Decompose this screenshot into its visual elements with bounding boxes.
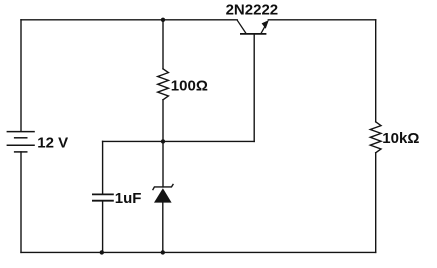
wire bottom ground rail bbox=[21, 251, 376, 253]
wire left rail lower (battery - to ground rail) bbox=[20, 152, 22, 253]
zener diode D1 bbox=[153, 184, 174, 203]
wire capacitor bottom lead bbox=[102, 201, 104, 253]
wire capacitor top lead bbox=[102, 141, 104, 193]
resistor R2 10kΩ bbox=[370, 122, 381, 153]
svg-text:10kΩ: 10kΩ bbox=[382, 130, 419, 147]
wire right rail upper (top to 10k) bbox=[375, 20, 377, 122]
capacitor C1 bbox=[92, 194, 114, 200]
wire zener bottom lead bbox=[162, 203, 164, 253]
wire top rail right segment (emitter to right rail) bbox=[268, 19, 375, 21]
wire right rail lower (10k to ground rail) bbox=[375, 153, 377, 253]
transistor Q1 2N2222 bbox=[237, 20, 269, 34]
wire base lead vertical bbox=[253, 34, 255, 141]
node junction ground rail / zener bbox=[161, 250, 165, 254]
wire 100Ω bottom lead bbox=[162, 100, 164, 142]
svg-text:12 V: 12 V bbox=[37, 134, 68, 151]
node junction mid wire / zener branch bbox=[161, 139, 165, 143]
resistor R1 100Ω bbox=[158, 69, 169, 100]
wire 100Ω top lead bbox=[162, 20, 164, 69]
node junction top wire / 100Ω branch bbox=[161, 18, 165, 22]
svg-text:1uF: 1uF bbox=[115, 190, 142, 207]
svg-text:2N2222: 2N2222 bbox=[226, 2, 279, 19]
svg-text:100Ω: 100Ω bbox=[171, 77, 208, 94]
wire mid horizontal (base net) bbox=[103, 140, 255, 142]
wire top rail left segment (V+ to collector) bbox=[21, 19, 237, 21]
wire left rail upper (top to battery +) bbox=[20, 20, 22, 132]
wire zener top lead bbox=[162, 141, 164, 187]
node junction ground rail / capacitor bbox=[100, 250, 104, 254]
battery V1 bbox=[7, 132, 35, 152]
